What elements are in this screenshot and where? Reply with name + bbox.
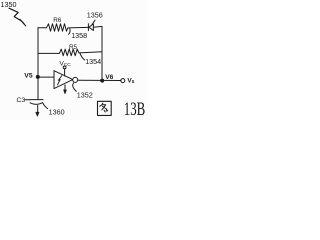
capacitor C3 top plate <box>30 99 43 101</box>
wire R5 branch left <box>38 52 60 54</box>
hysteresis glyph <box>58 76 62 85</box>
node V6 label <box>105 74 113 81</box>
node V5 label <box>24 73 33 80</box>
resistor R5 <box>60 49 80 56</box>
wire R5 branch right <box>79 52 102 53</box>
svg-text:Vs: Vs <box>127 78 134 85</box>
negative supply pin <box>64 85 66 90</box>
figure caption: character 图 <box>98 101 112 115</box>
svg-text:1356: 1356 <box>87 11 103 20</box>
svg-text:C3: C3 <box>17 97 26 104</box>
resistor R6 <box>47 24 68 31</box>
output inversion bubble <box>73 77 78 82</box>
leader 1356 <box>92 20 95 25</box>
svg-text:1352: 1352 <box>77 90 93 99</box>
leader 1352 <box>73 83 77 91</box>
Vs label <box>127 78 134 85</box>
svg-text:1354: 1354 <box>85 57 101 66</box>
svg-text:R6: R6 <box>53 17 62 24</box>
output wire to node V6 <box>78 79 121 81</box>
node V6 junction dot <box>100 79 104 83</box>
Vcc label <box>60 60 72 68</box>
wire V5 to op-amp input <box>38 76 54 78</box>
svg-text:1358: 1358 <box>71 31 87 40</box>
left vertical wire <box>37 28 39 100</box>
svg-text:R5: R5 <box>69 44 78 51</box>
label 1350 <box>1 0 17 9</box>
arrow to ground (down) <box>36 112 39 116</box>
R6 value label <box>53 17 62 24</box>
output terminal circle <box>121 79 125 83</box>
diode 1356 cathode bar <box>87 24 89 31</box>
svg-text:V5: V5 <box>24 73 33 80</box>
label 1360 <box>49 108 65 117</box>
leader arrow 1350 <box>9 8 22 21</box>
wire below C3 <box>37 106 39 113</box>
figure caption: 13B <box>124 98 146 119</box>
leader 1360 <box>43 103 48 109</box>
label 1356 <box>87 11 103 20</box>
wire R6 to diode <box>68 26 88 29</box>
label 1354 <box>85 57 101 66</box>
label 1358 <box>71 31 87 40</box>
node V5 junction dot <box>36 75 40 79</box>
diode 1356 triangle <box>89 24 94 31</box>
Vcc pin <box>64 69 66 76</box>
C3 label <box>17 97 26 104</box>
leader 1358 <box>69 29 71 35</box>
svg-text:1350: 1350 <box>1 0 17 9</box>
wire diode to right corner <box>93 25 102 28</box>
R5 value label <box>69 44 78 51</box>
label 1352 <box>77 90 93 99</box>
negative supply arrow <box>64 90 67 94</box>
Vcc pin terminal circle <box>63 66 66 69</box>
op-amp U1 triangle (schmitt inverter) <box>54 71 73 89</box>
svg-text:1360: 1360 <box>49 108 65 117</box>
svg-text:V6: V6 <box>105 74 113 81</box>
C3 leader dash <box>25 99 30 101</box>
leader 1354 <box>80 53 85 60</box>
wire top branch left <box>38 27 47 29</box>
right vertical wire <box>101 26 103 80</box>
capacitor C3 curved bottom plate <box>30 103 43 105</box>
svg-text:13B: 13B <box>124 98 146 119</box>
